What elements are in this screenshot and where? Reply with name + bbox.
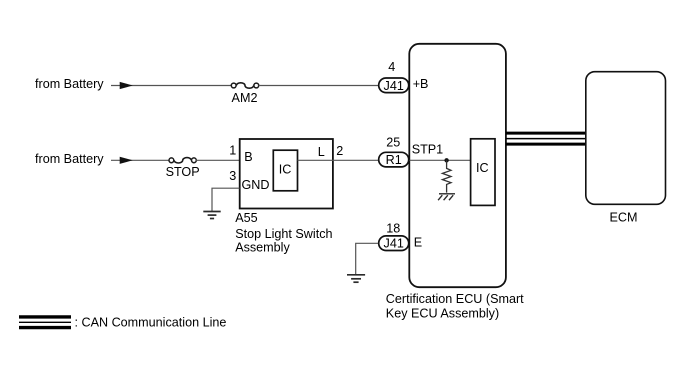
- wire: IC output to switch pin L: [298, 159, 334, 161]
- wire: switch pin L to connector R1 pin 25: [333, 159, 379, 161]
- arrow: feed direction row 2: [120, 157, 133, 164]
- IC (inside ECU): [471, 139, 495, 206]
- ground (chassis) under resistor: [438, 194, 455, 200]
- svg-text:ECM: ECM: [610, 211, 638, 225]
- legend: CAN communication line symbol: [19, 317, 71, 328]
- svg-text:J41: J41: [384, 237, 404, 251]
- svg-text:18: 18: [386, 221, 400, 235]
- resistor (pull-down inside ECU): [442, 160, 451, 192]
- fuse STOP: [169, 158, 196, 163]
- svg-text:2: 2: [336, 144, 343, 158]
- ground (earth) at pin E: [347, 275, 365, 282]
- svg-text:Assembly: Assembly: [235, 240, 290, 254]
- wire: battery feed to fuse STOP: [111, 159, 169, 161]
- connector R1 pin 25 (oval): [379, 152, 409, 167]
- wire: fuse STOP to switch pin B: [196, 159, 239, 161]
- IC (inside A55): [273, 150, 297, 191]
- arrow: feed direction row 1: [120, 82, 133, 89]
- svg-text:B: B: [244, 150, 252, 164]
- wire: pin E to ground: [356, 243, 378, 274]
- svg-text:1: 1: [229, 143, 236, 157]
- svg-text:+B: +B: [413, 77, 429, 91]
- svg-text:Key ECU Assembly): Key ECU Assembly): [386, 307, 499, 321]
- svg-text:Stop Light Switch: Stop Light Switch: [235, 227, 332, 241]
- wire: battery feed to fuse AM2: [111, 85, 231, 87]
- CAN communication line: ECU to ECM: [506, 133, 586, 144]
- certification ECU box: [409, 44, 506, 287]
- svg-text:Certification ECU (Smart: Certification ECU (Smart: [386, 292, 524, 306]
- svg-text:STOP: STOP: [166, 165, 200, 179]
- wire: fuse AM2 to connector J41 pin 4: [259, 85, 379, 87]
- switch A55 stop light switch assembly (box): [240, 139, 333, 209]
- svg-text:AM2: AM2: [232, 91, 258, 105]
- svg-text:GND: GND: [242, 178, 270, 192]
- svg-text:from Battery: from Battery: [35, 77, 104, 91]
- node: STP1 junction: [444, 158, 448, 162]
- wire: STP1 into ECU to IC: [410, 159, 471, 161]
- svg-text:J41: J41: [384, 79, 404, 93]
- svg-text:IC: IC: [279, 162, 292, 176]
- svg-text:3: 3: [229, 169, 236, 183]
- wire: switch GND stub to ground: [212, 188, 240, 211]
- svg-text:from Battery: from Battery: [35, 152, 104, 166]
- ground (earth) at A55 GND: [203, 212, 220, 219]
- connector J41 pin 18 (oval): [379, 236, 409, 251]
- svg-text:E: E: [414, 236, 422, 250]
- fuse AM2: [231, 83, 258, 88]
- ECM box: [586, 72, 666, 205]
- svg-text:25: 25: [386, 135, 400, 149]
- svg-text:4: 4: [388, 60, 395, 74]
- svg-text:A55: A55: [235, 211, 257, 225]
- svg-text:L: L: [318, 145, 325, 159]
- connector J41 pin 4 (oval): [379, 78, 409, 93]
- svg-text:: CAN Communication Line: : CAN Communication Line: [75, 315, 227, 329]
- svg-text:STP1: STP1: [412, 143, 444, 157]
- svg-text:IC: IC: [476, 161, 489, 175]
- svg-text:R1: R1: [386, 153, 402, 167]
